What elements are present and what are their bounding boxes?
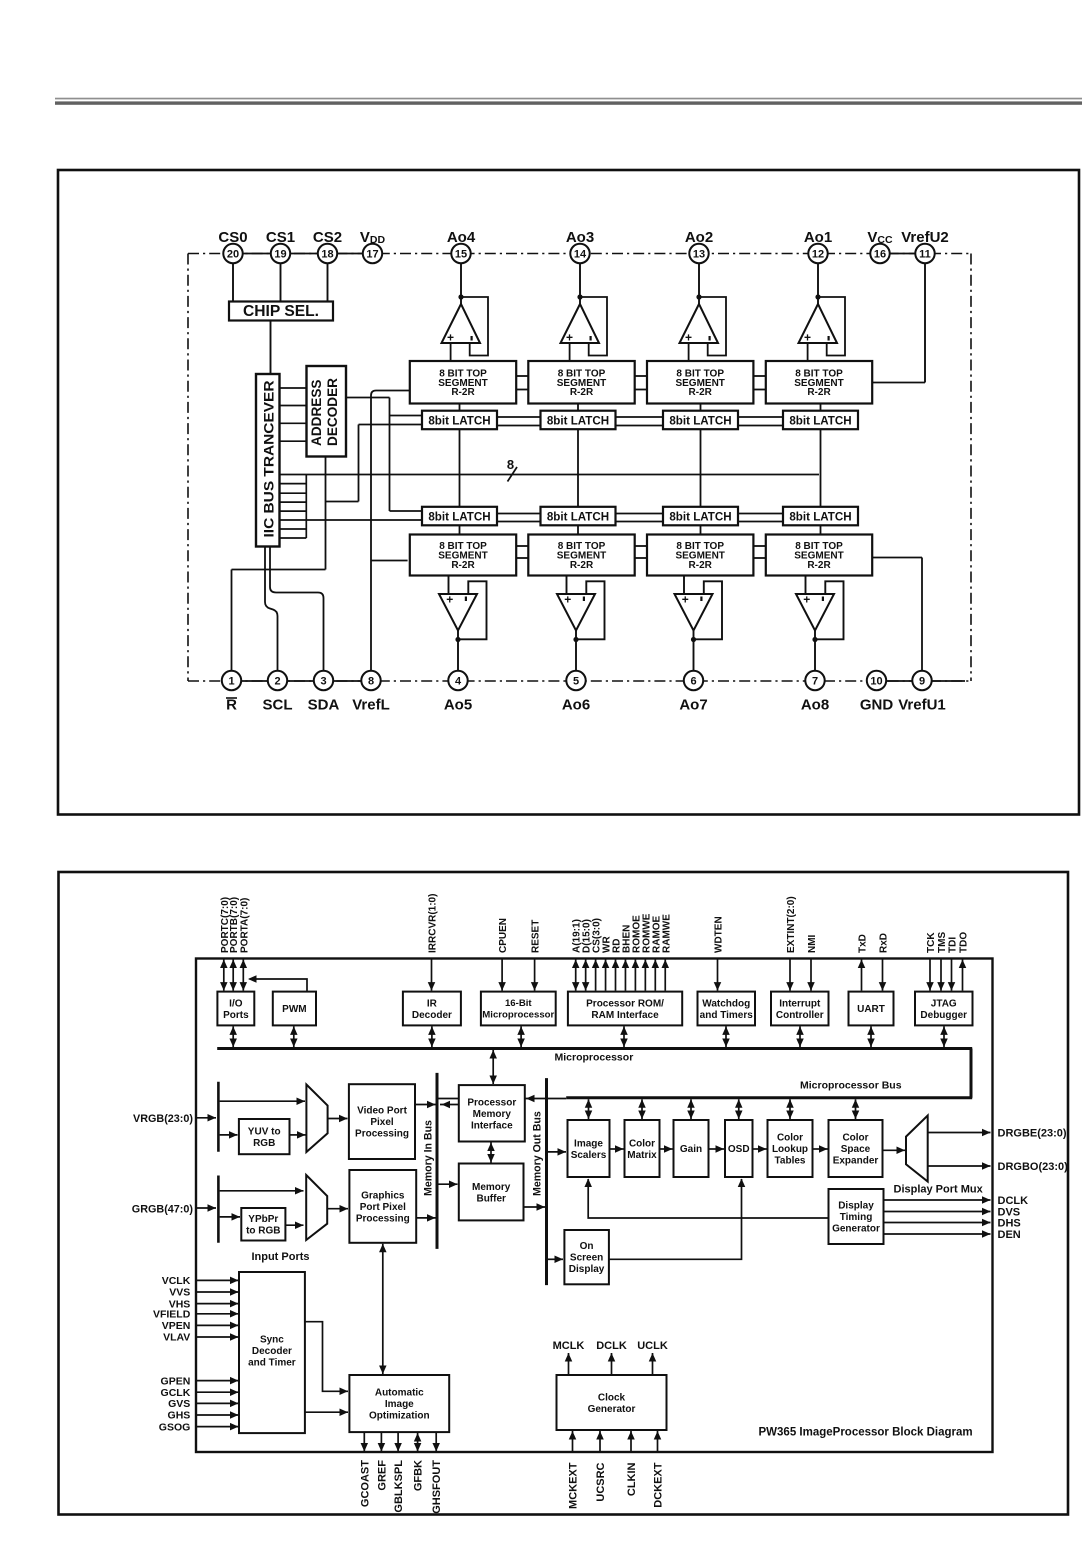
svg-text:R-2R: R-2R [451,560,475,571]
svg-text:CS1: CS1 [266,229,295,246]
svg-text:Processor ROM/: Processor ROM/ [586,998,664,1009]
svg-text:Port Pixel: Port Pixel [360,1202,406,1213]
svg-text:and Timers: and Timers [700,1010,754,1021]
svg-text:YUV to: YUV to [248,1126,281,1137]
svg-text:VVS: VVS [169,1287,190,1299]
svg-text:Processing: Processing [355,1129,409,1140]
svg-text:8bit LATCH: 8bit LATCH [547,415,609,428]
svg-text:Scalers: Scalers [571,1150,607,1161]
svg-text:ADDRESS: ADDRESS [309,380,324,446]
svg-text:CS0: CS0 [218,229,247,246]
svg-text:8: 8 [368,676,374,688]
svg-text:CHIP SEL.: CHIP SEL. [243,303,319,320]
svg-text:Microprocessor Bus: Microprocessor Bus [800,1080,902,1092]
svg-text:+: + [566,331,573,345]
svg-text:Microprocessor: Microprocessor [555,1052,634,1064]
svg-text:VFIELD: VFIELD [153,1309,191,1321]
svg-text:MCLK: MCLK [553,1340,585,1352]
svg-text:GFBK: GFBK [413,1460,425,1491]
svg-text:EXTINT(2:0): EXTINT(2:0) [786,896,797,953]
svg-text:VrefL: VrefL [352,697,390,714]
svg-text:Pixel: Pixel [370,1117,394,1128]
svg-text:Memory: Memory [473,1109,512,1120]
svg-text:+: + [803,593,810,607]
svg-text:Screen: Screen [570,1253,603,1264]
svg-text:Debugger: Debugger [920,1010,967,1021]
svg-text:Color: Color [842,1133,868,1144]
svg-text:TxD: TxD [858,934,869,953]
svg-text:to RGB: to RGB [246,1225,280,1236]
svg-text:15: 15 [455,249,467,261]
svg-text:GCLK: GCLK [161,1387,191,1399]
svg-text:GSOG: GSOG [159,1421,191,1433]
svg-text:GREF: GREF [376,1460,388,1491]
svg-text:OSD: OSD [728,1144,750,1155]
svg-text:1: 1 [228,676,234,688]
svg-text:11: 11 [919,249,931,261]
svg-text:DCLK: DCLK [596,1340,627,1352]
svg-text:Memory Out Bus: Memory Out Bus [532,1111,544,1196]
svg-text:PWM: PWM [282,1004,306,1015]
svg-text:DEN: DEN [998,1229,1021,1241]
svg-text:VrefU2: VrefU2 [901,229,949,246]
svg-text:VPEN: VPEN [162,1320,191,1332]
svg-text:16: 16 [874,249,886,261]
svg-text:IRRCVR(1:0): IRRCVR(1:0) [428,894,439,953]
svg-text:4: 4 [455,676,462,688]
svg-text:Timing: Timing [840,1212,873,1223]
svg-text:Buffer: Buffer [476,1193,506,1204]
svg-text:Ao4: Ao4 [447,229,476,246]
svg-text:2: 2 [274,676,280,688]
svg-text:Microprocessor: Microprocessor [482,1010,554,1021]
svg-text:DECODER: DECODER [325,378,340,446]
svg-text:JTAG: JTAG [931,998,957,1009]
svg-text:Optimization: Optimization [369,1411,430,1422]
svg-text:8bit LATCH: 8bit LATCH [547,511,609,524]
svg-text:Generator: Generator [832,1224,880,1235]
svg-text:YPbPr: YPbPr [248,1214,278,1225]
svg-text:R-2R: R-2R [451,387,475,398]
svg-text:VCC: VCC [867,229,893,246]
svg-text:10: 10 [870,676,882,688]
svg-text:+: + [447,331,454,345]
svg-text:Automatic: Automatic [375,1388,424,1399]
svg-text:RGB: RGB [253,1138,275,1149]
svg-text:8bit LATCH: 8bit LATCH [789,511,851,524]
svg-text:7: 7 [812,676,818,688]
svg-text:Image: Image [385,1399,414,1410]
svg-text:R-2R: R-2R [807,560,831,571]
svg-text:Ao3: Ao3 [566,229,594,246]
svg-text:R-2R: R-2R [570,560,594,571]
svg-text:DRGBE(23:0): DRGBE(23:0) [998,1128,1067,1140]
svg-text:Input Ports: Input Ports [251,1251,309,1263]
svg-text:Memory: Memory [472,1182,511,1193]
svg-text:VCLK: VCLK [162,1275,191,1287]
svg-text:20: 20 [227,249,239,261]
svg-text:8bit LATCH: 8bit LATCH [669,511,731,524]
svg-text:8bit LATCH: 8bit LATCH [669,415,731,428]
svg-text:Watchdog: Watchdog [702,998,750,1009]
svg-text:13: 13 [693,249,705,261]
svg-text:Matrix: Matrix [627,1150,657,1161]
svg-text:Display Port Mux: Display Port Mux [894,1183,984,1195]
svg-text:R-2R: R-2R [570,387,594,398]
svg-text:Display: Display [838,1201,874,1212]
svg-text:Decoder: Decoder [412,1010,452,1021]
svg-text:RxD: RxD [879,933,890,953]
svg-text:DCLK: DCLK [998,1195,1029,1207]
svg-text:DCKEXT: DCKEXT [653,1462,665,1508]
svg-text:Tables: Tables [775,1156,806,1167]
svg-text:NMI: NMI [807,934,818,953]
svg-text:Ao6: Ao6 [562,697,590,714]
svg-text:VrefU1: VrefU1 [898,697,946,714]
svg-text:Ports: Ports [223,1010,249,1021]
svg-text:Processing: Processing [356,1213,410,1224]
svg-text:RESET: RESET [531,920,542,953]
svg-text:UCSRC: UCSRC [595,1462,607,1501]
svg-text:DHS: DHS [998,1218,1021,1230]
svg-text:TCK: TCK [926,932,937,953]
svg-text:VRGB(23:0): VRGB(23:0) [133,1113,193,1125]
svg-text:On: On [580,1241,594,1252]
svg-text:Interrupt: Interrupt [779,998,821,1009]
svg-text:Expander: Expander [833,1156,879,1167]
svg-text:Sync: Sync [260,1335,284,1346]
svg-text:UCLK: UCLK [637,1340,668,1352]
svg-text:Color: Color [629,1138,655,1149]
svg-text:+: + [804,331,811,345]
svg-text:GBLKSPL: GBLKSPL [393,1460,405,1513]
svg-text:and Timer: and Timer [248,1358,296,1369]
svg-text:8bit LATCH: 8bit LATCH [428,415,490,428]
svg-text:8bit LATCH: 8bit LATCH [789,415,851,428]
svg-text:14: 14 [574,249,587,261]
svg-text:8bit LATCH: 8bit LATCH [428,511,490,524]
svg-text:Video Port: Video Port [357,1106,407,1117]
svg-text:GRGB(47:0): GRGB(47:0) [132,1203,194,1215]
svg-text:Controller: Controller [776,1010,824,1021]
svg-text:VLAV: VLAV [163,1332,190,1344]
svg-text:CPUEN: CPUEN [498,918,509,953]
svg-text:WDTEN: WDTEN [714,916,725,953]
svg-text:12: 12 [812,249,824,261]
svg-text:CS2: CS2 [313,229,342,246]
svg-text:Ao2: Ao2 [685,229,713,246]
svg-text:+: + [685,331,692,345]
svg-text:UART: UART [857,1004,885,1015]
svg-text:GCOAST: GCOAST [359,1460,371,1507]
svg-text:17: 17 [366,249,378,261]
svg-text:Ao5: Ao5 [444,697,472,714]
svg-text:5: 5 [573,676,579,688]
svg-text:Space: Space [841,1144,871,1155]
svg-text:TDO: TDO [959,932,970,953]
svg-text:16-Bit: 16-Bit [505,998,532,1009]
svg-text:3: 3 [320,676,326,688]
svg-text:Display: Display [569,1264,605,1275]
svg-text:IR: IR [427,998,438,1009]
svg-text:PORTA(7:0): PORTA(7:0) [239,898,250,953]
svg-text:GVS: GVS [168,1398,190,1410]
svg-text:Memory In Bus: Memory In Bus [423,1120,435,1196]
svg-text:Decoder: Decoder [252,1346,292,1357]
svg-text:MCKEXT: MCKEXT [568,1462,580,1509]
svg-text:Clock: Clock [598,1392,626,1403]
svg-text:SDA: SDA [308,697,340,714]
svg-text:19: 19 [274,249,286,261]
svg-text:SCL: SCL [263,697,293,714]
svg-text:GHSFOUT: GHSFOUT [431,1460,443,1514]
svg-text:Color: Color [777,1133,803,1144]
svg-text:RAM Interface: RAM Interface [591,1010,659,1021]
svg-text:GHS: GHS [168,1410,191,1422]
svg-text:R: R [226,697,237,714]
svg-text:I/O: I/O [229,998,243,1009]
svg-text:Graphics: Graphics [361,1190,405,1201]
svg-text:Ao1: Ao1 [804,229,832,246]
svg-text:PW365 ImageProcessor Block Dia: PW365 ImageProcessor Block Diagram [759,1427,973,1439]
svg-text:Ao8: Ao8 [801,697,829,714]
svg-text:18: 18 [321,249,333,261]
svg-text:IIC BUS TRANCEVER: IIC BUS TRANCEVER [262,381,278,538]
svg-text:DRGBO(23:0): DRGBO(23:0) [998,1161,1069,1173]
svg-text:Gain: Gain [680,1144,702,1155]
svg-text:TMS: TMS [937,932,948,953]
svg-text:RAMWE: RAMWE [661,914,672,953]
svg-text:Interface: Interface [471,1120,513,1131]
svg-text:+: + [446,593,453,607]
svg-text:CLKIN: CLKIN [626,1462,638,1496]
svg-text:Processor: Processor [467,1097,516,1108]
svg-text:Generator: Generator [588,1404,636,1415]
svg-text:R-2R: R-2R [689,560,713,571]
svg-text:GPEN: GPEN [161,1375,191,1387]
svg-text:Ao7: Ao7 [679,697,707,714]
svg-text:6: 6 [690,676,696,688]
svg-text:R-2R: R-2R [689,387,713,398]
svg-text:Lookup: Lookup [772,1144,808,1155]
svg-text:GND: GND [860,697,894,714]
svg-text:8: 8 [507,457,514,472]
svg-text:9: 9 [919,676,925,688]
svg-text:+: + [564,593,571,607]
svg-text:R-2R: R-2R [807,387,831,398]
svg-text:TDI: TDI [948,937,959,953]
svg-text:VDD: VDD [360,229,386,246]
svg-text:+: + [682,593,689,607]
svg-text:Image: Image [574,1138,603,1149]
